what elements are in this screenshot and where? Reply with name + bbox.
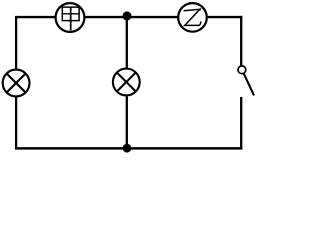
wire: switch lower contact stub down to bottom-right corner: [240, 97, 242, 149]
wire: left branch lower (lamp L1 down to bottom-left corner): [15, 96, 17, 149]
switch S blade: [244, 73, 254, 95]
ammeter/meter 乙: [178, 3, 207, 32]
ammeter/meter 甲: [56, 3, 85, 32]
wire: top segment between meter 甲 and meter 乙 (through top node): [85, 16, 178, 18]
lamp L2 (middle branch): [113, 69, 140, 96]
node: bottom junction dot: [123, 144, 132, 153]
switch S (open) pivot circle: [238, 66, 246, 74]
wire: bottom wire (bottom-left corner to bottom-right corner): [15, 147, 242, 150]
wire: middle branch upper (top node down to lamp L2): [126, 16, 128, 69]
lamp L1 (left branch): [3, 70, 30, 97]
wire: left branch upper (corner down to lamp L1): [15, 16, 17, 70]
wire: middle branch lower (lamp L2 down to bottom node): [126, 95, 128, 148]
node: top junction dot: [123, 11, 132, 20]
wire: right branch upper (top-right corner down to switch): [240, 16, 242, 66]
wire: top-left segment from corner to meter 甲: [16, 16, 55, 18]
wire: top-right segment from meter 乙 to right corner: [207, 16, 242, 18]
